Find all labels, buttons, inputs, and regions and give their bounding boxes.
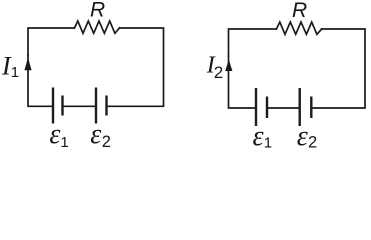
wire: right loop top-left segment bbox=[229, 29, 277, 56]
svg-text:2: 2 bbox=[102, 133, 111, 151]
wire: right loop top-right + right side bbox=[311, 29, 365, 108]
battery cell E1 (right loop): short plate bbox=[266, 97, 268, 119]
svg-text:1: 1 bbox=[11, 64, 19, 81]
wire: right loop between batteries bbox=[267, 107, 300, 109]
wire: left loop top-right + right side bbox=[107, 28, 164, 106]
battery cell E1 (left loop): long plate bbox=[52, 88, 54, 124]
svg-text:1: 1 bbox=[60, 134, 68, 151]
current arrow I1 bbox=[24, 58, 31, 71]
svg-text:ε: ε bbox=[253, 121, 264, 151]
svg-text:ε: ε bbox=[90, 119, 101, 150]
svg-text:R: R bbox=[292, 0, 307, 22]
battery cell E2 (left loop): short plate bbox=[105, 96, 107, 116]
svg-text:ε: ε bbox=[49, 119, 60, 150]
battery cell E2 (right loop): short plate bbox=[310, 97, 312, 119]
wire: left loop left side lower + bottom-left segment bbox=[28, 55, 53, 106]
wire: left loop between batteries bbox=[63, 105, 97, 107]
battery cell E2 (left loop): long plate bbox=[95, 88, 97, 124]
svg-text:2: 2 bbox=[308, 133, 317, 151]
svg-text:1: 1 bbox=[264, 134, 272, 151]
wire: right loop left side lower + bottom-left segment bbox=[229, 56, 257, 108]
resistor R (left loop) bbox=[75, 21, 120, 33]
wire: left loop top-left segment bbox=[28, 28, 75, 55]
battery cell E2 (right loop): long plate bbox=[299, 88, 301, 126]
resistor R (right loop) bbox=[276, 22, 321, 34]
svg-text:2: 2 bbox=[214, 63, 223, 82]
svg-text:ε: ε bbox=[297, 121, 308, 151]
battery cell E1 (right loop): long plate bbox=[255, 88, 257, 126]
svg-text:R: R bbox=[90, 0, 105, 21]
battery cell E1 (left loop): short plate bbox=[61, 96, 63, 116]
current arrow I2 bbox=[225, 60, 232, 72]
